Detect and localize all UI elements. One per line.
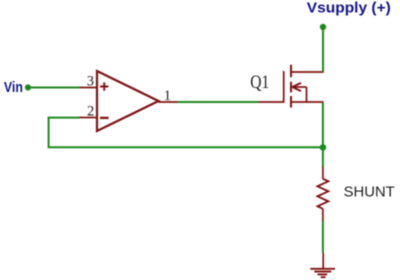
pin number 1: [164, 88, 171, 104]
wire junction to resistor: [322, 147, 324, 167]
transistor Q1 gate bar: [283, 71, 285, 103]
wire Vsupply to Q1 drain: [322, 27, 324, 72]
junction node dot: [320, 144, 327, 151]
op-amp U1 pin 2 stub: [80, 117, 97, 119]
transistor Q1 label: [250, 73, 269, 93]
transistor Q1 gate pin stub: [259, 101, 284, 103]
op-amp U1 minus symbol: [100, 117, 109, 119]
node Vin label: [4, 80, 23, 96]
resistor SHUNT bottom stub: [322, 209, 324, 221]
wire Q1 source down to junction: [322, 103, 324, 148]
transistor Q1 drain connection: [291, 71, 324, 73]
svg-text:2: 2: [87, 103, 94, 119]
op-amp U1 output pin 1 stub: [159, 101, 178, 103]
node Vsupply terminal dot: [320, 24, 326, 30]
wire op-amp output to Q1 gate: [178, 101, 259, 103]
transistor Q1 channel dashes: [290, 65, 292, 108]
resistor SHUNT value label: [344, 185, 395, 201]
wire feedback from pin 2 to junction: [49, 118, 323, 148]
svg-text:Vsupply (+): Vsupply (+): [307, 1, 391, 17]
pin number 3: [87, 74, 94, 90]
node Vsupply (+) label: [307, 1, 391, 17]
ground symbol bars: [310, 269, 335, 277]
node Vin terminal dot: [25, 84, 31, 90]
pin number 2: [87, 103, 94, 119]
transistor Q1 source connection: [291, 101, 324, 103]
transistor Q1 body arrow: [292, 83, 306, 91]
svg-text:SHUNT: SHUNT: [344, 185, 395, 201]
svg-text:Vin: Vin: [4, 80, 23, 96]
ground symbol stem: [322, 253, 324, 269]
svg-text:3: 3: [87, 74, 94, 90]
resistor SHUNT top stub: [322, 167, 324, 179]
op-amp U1 plus symbol: [100, 82, 108, 90]
op-amp U1 pin 3 stub: [80, 87, 97, 89]
wire resistor to ground: [322, 221, 324, 253]
transistor Q1 body-source vertical: [306, 87, 308, 102]
svg-text:Q1: Q1: [250, 73, 269, 93]
op-amp U1 triangle body: [97, 71, 159, 131]
svg-text:1: 1: [164, 88, 171, 104]
resistor SHUNT zigzag: [318, 179, 329, 209]
wire Vin to op-amp pin 3: [28, 87, 80, 89]
